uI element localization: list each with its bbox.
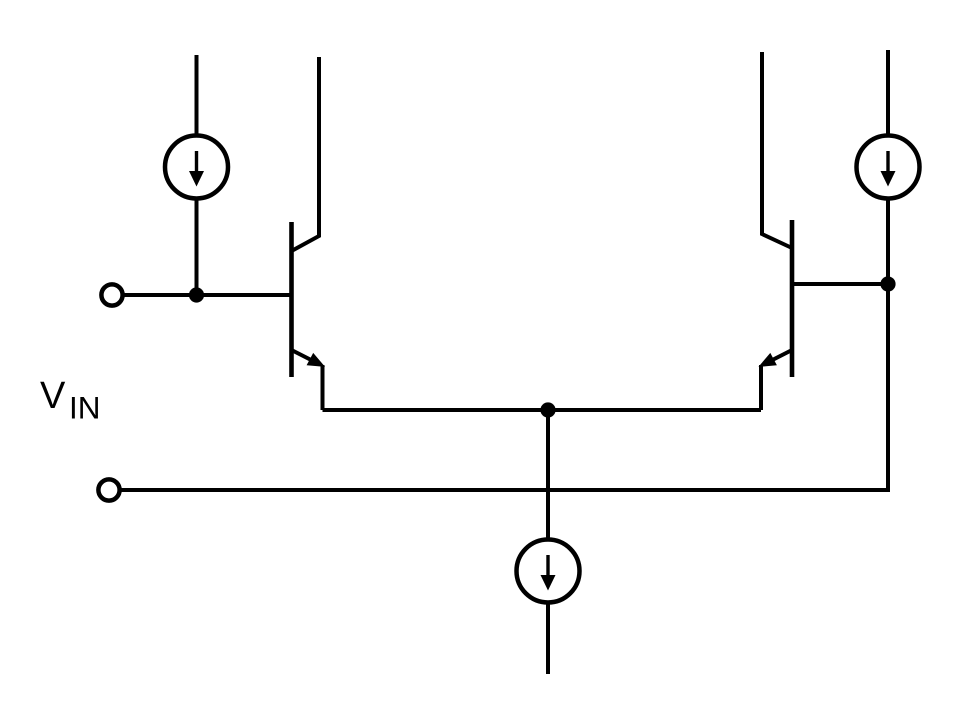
terminal: VIN- open circle	[98, 479, 119, 500]
current source I2 (right)	[857, 136, 920, 199]
wire: I1 bottom to input node	[195, 198, 199, 295]
wire: I3 bottom tail	[546, 602, 550, 674]
node: right base node (junction dot)	[880, 276, 895, 291]
label VIN	[40, 375, 101, 426]
transistor Q1 collector	[292, 57, 320, 251]
transistor Q1 emitter (with NPN arrow)	[292, 350, 326, 410]
wire: tail node down to I3	[546, 410, 550, 540]
wire: Q2 base to right node	[792, 282, 888, 286]
wire: right current-source top feed	[886, 50, 890, 136]
transistor Q2 base bar	[790, 220, 795, 377]
wire: left current-source top feed	[195, 55, 199, 136]
transistor Q2 collector	[762, 52, 792, 248]
wire: emitter bus (tail node to Q2 emitter)	[548, 408, 761, 412]
wire: VIN- terminal to right branch (bottom rail)	[120, 488, 890, 492]
transistor Q1 base bar	[289, 222, 294, 377]
current source I3 (tail)	[517, 540, 580, 603]
wire: VIN+ terminal to Q1 base	[123, 293, 292, 297]
terminal: VIN+ open circle	[101, 284, 122, 305]
wire: emitter bus (Q1 emitter to tail node)	[323, 408, 549, 412]
transistor Q2 emitter (with NPN arrow, mirrored)	[758, 350, 792, 410]
node: left base node (junction dot)	[189, 287, 204, 302]
wire: I2 bottom down to bottom rail corner	[886, 198, 890, 490]
svg-text:IN: IN	[69, 390, 101, 426]
current source I1 (left)	[165, 136, 228, 199]
svg-text:V: V	[40, 375, 66, 417]
node: tail junction dot	[540, 402, 555, 417]
